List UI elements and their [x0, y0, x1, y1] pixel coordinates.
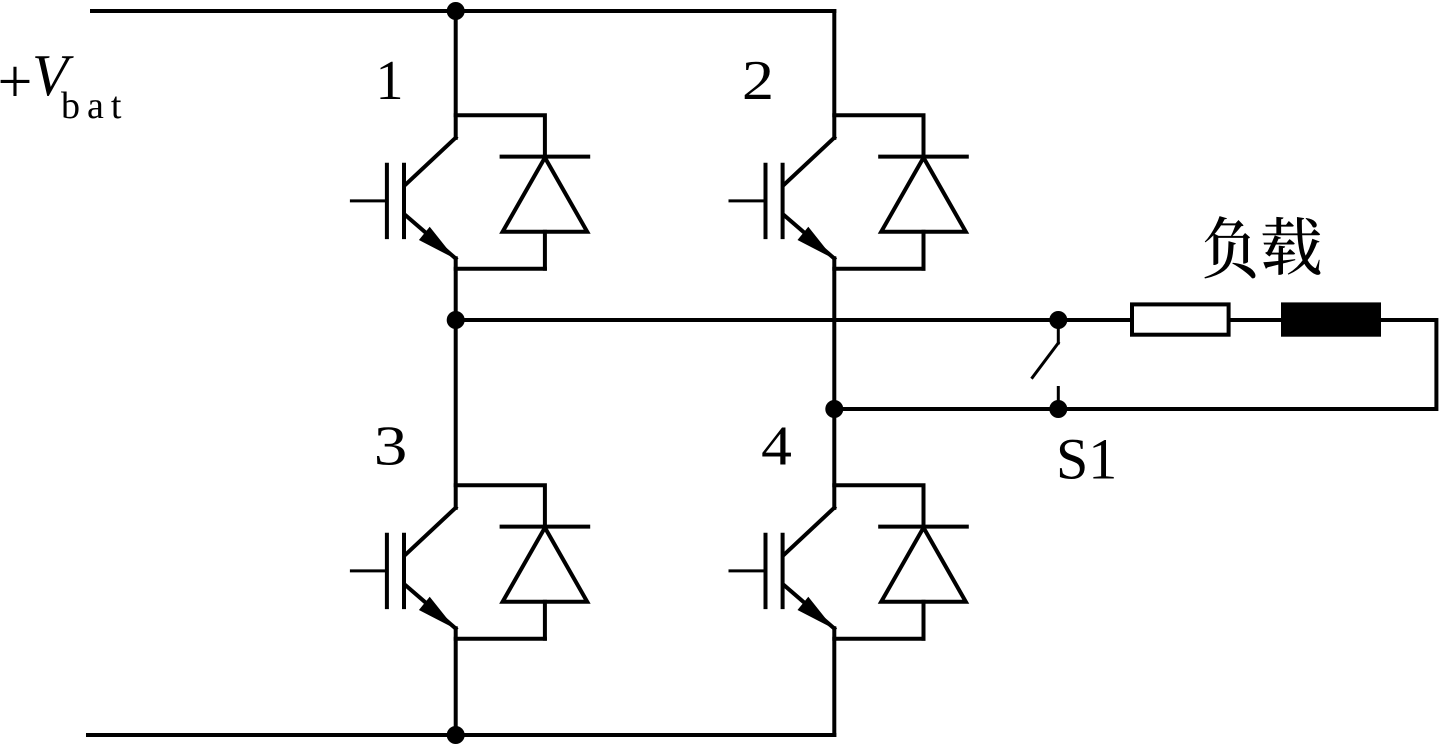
diode of switch 3: triangle	[503, 528, 588, 602]
IGBT 2: gate lead	[730, 199, 766, 202]
IGBT 4: body bar	[781, 535, 785, 607]
node: leg A midpoint / output wire junction	[447, 311, 465, 329]
wire: leg A midpoint (emitter 1 to collector 3)	[454, 258, 458, 508]
diode of switch 2: cathode bar	[880, 155, 967, 159]
switch S1: top stub	[1057, 327, 1060, 343]
load inductor (solid black box)	[1281, 302, 1381, 336]
switch S1: blade	[1032, 343, 1058, 378]
svg-text:3: 3	[374, 416, 408, 478]
svg-text:bat: bat	[61, 85, 128, 127]
wire: leg A midpoint to load (output node)	[456, 318, 1132, 322]
IGBT 1: body bar	[402, 165, 406, 237]
IGBT 3: collector slant	[406, 508, 456, 555]
node: switch S1 top terminal	[1049, 311, 1067, 329]
wire: resistor to inductor	[1229, 318, 1283, 322]
diode of switch 2: top connecting branch	[834, 115, 923, 156]
IGBT 1: gate bar	[385, 165, 389, 237]
IGBT 3: emitter slant	[406, 586, 456, 629]
diode of switch 4: bottom connecting branch	[834, 637, 923, 641]
label: 负 (load) hand-inlined glyph outline	[1204, 216, 1255, 278]
IGBT 2: emitter arrowhead	[798, 227, 834, 259]
diode of switch 1: triangle	[503, 158, 588, 232]
svg-text:S1: S1	[1056, 427, 1117, 492]
wire: leg B midpoint (emitter 2 to collector 4)	[832, 258, 836, 508]
IGBT 4: emitter arrowhead	[798, 597, 834, 629]
IGBT 2: body bar	[781, 165, 785, 237]
IGBT 3: gate lead	[351, 569, 387, 572]
node: bottom rail / leg A junction	[447, 726, 465, 744]
IGBT 4: collector slant	[785, 508, 835, 555]
diode of switch 2: bottom connecting branch	[834, 267, 923, 271]
IGBT 3: emitter arrowhead	[419, 597, 455, 629]
wire: leg B collector drop (switch 2)	[832, 11, 836, 138]
diode of switch 3: cathode bar	[502, 525, 589, 529]
svg-text:2: 2	[742, 50, 774, 112]
diode of switch 3: top connecting branch	[456, 485, 545, 526]
svg-text:4: 4	[761, 415, 792, 477]
diode of switch 2: triangle	[881, 158, 966, 232]
diode of switch 1: anode lead	[543, 232, 547, 269]
IGBT 3: gate bar	[385, 535, 389, 607]
wire: bottom DC rail	[88, 733, 834, 737]
diode of switch 2: anode lead	[922, 232, 926, 269]
svg-text:1: 1	[376, 50, 404, 112]
IGBT 1: emitter arrowhead	[419, 227, 455, 259]
diode of switch 1: cathode bar	[502, 155, 589, 159]
wire: leg A collector drop (switch 1)	[454, 11, 458, 138]
diode of switch 1: bottom connecting branch	[456, 267, 545, 271]
IGBT 3: body bar	[402, 535, 406, 607]
diode of switch 4: triangle	[881, 528, 966, 602]
diode of switch 3: bottom connecting branch	[456, 637, 545, 641]
IGBT 1: collector slant	[406, 138, 456, 185]
wire: +V DC top rail	[92, 9, 834, 13]
diode of switch 4: anode lead	[922, 602, 926, 639]
IGBT 4: gate lead	[730, 569, 766, 572]
wire: inductor to right edge, drop and load return to leg B tap	[834, 320, 1436, 409]
IGBT 2: emitter slant	[785, 216, 835, 259]
IGBT 4: gate bar	[764, 535, 768, 607]
node: top rail / leg A junction	[447, 2, 465, 20]
IGBT 2: collector slant	[785, 138, 835, 185]
IGBT 4: emitter slant	[785, 586, 835, 629]
svg-text:+: +	[0, 48, 32, 116]
diode of switch 3: anode lead	[543, 602, 547, 639]
diode of switch 4: cathode bar	[880, 525, 967, 529]
wire: leg A emitter 3 to bottom rail	[454, 628, 458, 735]
diode of switch 4: top connecting branch	[834, 485, 923, 526]
IGBT 1: emitter slant	[406, 216, 456, 259]
wire: leg B emitter 4 to bottom rail	[832, 628, 836, 735]
IGBT 1: gate lead	[351, 199, 387, 202]
IGBT 2: gate bar	[764, 165, 768, 237]
label: 载 (load) hand-inlined glyph outline	[1262, 217, 1320, 275]
node: leg B / return wire junction	[825, 400, 843, 418]
node: switch S1 bottom terminal	[1049, 400, 1067, 418]
diode of switch 1: top connecting branch	[456, 115, 545, 156]
load resistor (open box)	[1132, 304, 1229, 334]
switch S1: bottom stub	[1057, 388, 1060, 406]
